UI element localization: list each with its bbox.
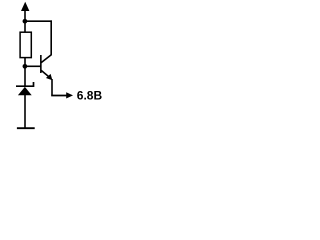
wire: top horizontal to collector drop bbox=[25, 20, 52, 22]
output arrowhead (points right) bbox=[66, 92, 73, 98]
wire: collector vertical drop bbox=[50, 20, 52, 55]
power rail arrow (supply, pointing up) bbox=[21, 2, 29, 11]
zener diode VD1 triangle (anode below, pointing up) bbox=[18, 87, 32, 95]
wire: zener anode down to ground bbox=[24, 95, 26, 128]
wire: output horizontal bbox=[51, 95, 67, 97]
ground bar bbox=[17, 127, 35, 129]
background bbox=[0, 0, 108, 133]
wire: zener node down to zener cathode bbox=[24, 66, 26, 87]
transistor Q1 collector lead (diagonal) bbox=[41, 55, 51, 63]
resistor R1 bbox=[20, 32, 31, 57]
wire: emitter vertical down bbox=[51, 79, 53, 96]
node junction dot (base / zener node) bbox=[23, 64, 28, 69]
transistor Q1 emitter arrowhead bbox=[46, 74, 53, 80]
transistor Q1 emitter lead (diagonal) bbox=[41, 70, 49, 77]
wire: base horizontal bbox=[25, 65, 41, 67]
svg-text:6.8В: 6.8В bbox=[77, 88, 103, 102]
wire: resistor bottom to base node bbox=[24, 57, 26, 67]
transistor Q1 base bar bbox=[40, 55, 42, 73]
node junction dot (top, collector branch) bbox=[23, 19, 28, 24]
wire: supply arrow down to resistor top bbox=[24, 10, 26, 33]
zener diode VD1 cathode bar with hook bbox=[16, 82, 34, 86]
